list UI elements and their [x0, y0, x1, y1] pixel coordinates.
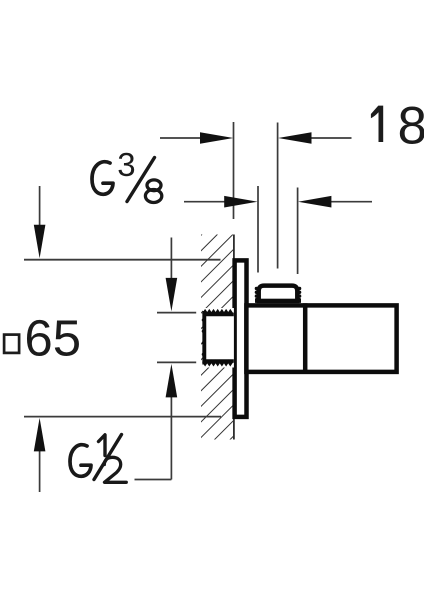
nipple top tick: [157, 312, 196, 314]
svg-text:8: 8: [398, 96, 424, 155]
dimension line 18 right: [278, 132, 351, 144]
label G1/2: fraction slash: [94, 435, 122, 480]
label G3/8: numeral 8: [147, 180, 161, 191]
G1/2 leader with up arrow: [135, 364, 178, 480]
label G1/2: G glyph: [70, 445, 91, 477]
dimension line G3/8 left: [184, 196, 258, 208]
label G3/8: G glyph: [92, 162, 113, 195]
body-pipe divider: [303, 303, 308, 374]
label square symbol: [4, 335, 19, 353]
label G1/2: numeral 1: [99, 435, 106, 456]
threaded inlet nipple: [202, 308, 234, 368]
svg-text:65: 65: [24, 310, 81, 367]
square-65 lower line: [24, 416, 221, 418]
escutcheon flange: [235, 260, 247, 417]
svg-text:3: 3: [117, 146, 135, 183]
nipple bottom tick: [157, 361, 196, 363]
dimension line 18 left: [160, 132, 233, 144]
wall face line: [233, 235, 235, 440]
handle knurl bumps: [255, 287, 302, 301]
extension line C: [257, 186, 259, 273]
nipple top thread: [203, 313, 234, 317]
valve body and outlet pipe: [246, 305, 396, 372]
nipple left edge: [202, 311, 206, 365]
nipple bottom thread: [203, 359, 234, 363]
handle: [255, 286, 302, 302]
wall hatch: [201, 235, 234, 440]
extension line D: [297, 188, 299, 275]
square-65 down arrow: [34, 186, 46, 258]
extension line valve axis: [277, 123, 279, 269]
extension line wall face: [233, 122, 235, 219]
square-65 up arrow: [34, 418, 46, 492]
label G3/8: fraction slash: [127, 158, 155, 202]
label 18: [371, 106, 383, 142]
dimension line G3/8 right: [298, 196, 372, 208]
label G1/2: numeral 2: [104, 457, 126, 482]
inlet down arrow: [166, 238, 178, 312]
square-65 upper line: [24, 259, 221, 261]
